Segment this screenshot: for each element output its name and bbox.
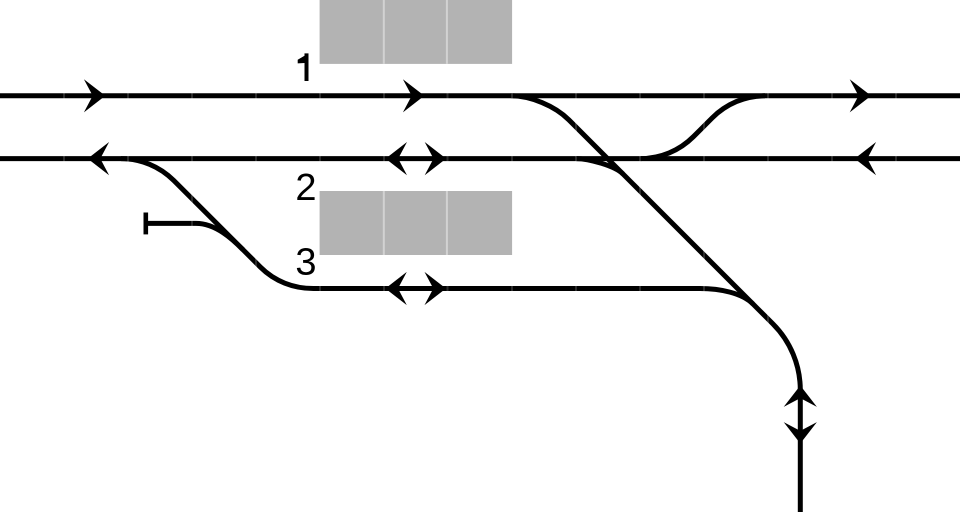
branch from track 1: diagonal to vertical exit line [511, 96, 801, 512]
platform B divider lines [384, 191, 447, 255]
arrow left, track 2 right [855, 142, 876, 175]
track 3 loop (left S-curve from track 2, straight, right end curve into branch) [121, 159, 753, 304]
double arrow, track 3: right head [425, 272, 446, 305]
vertical double arrow: down head [784, 422, 817, 443]
platform A divider lines [384, 0, 447, 64]
track 2 main line [0, 156, 960, 161]
crossover track 2 up to track 1 [641, 96, 766, 159]
siding stub curve [146, 223, 243, 249]
arrow right, track 1 left [84, 79, 105, 112]
platform B (middle, tracks 2/3) [320, 191, 512, 255]
label track 1 (custom Arial-style glyph) [298, 53, 309, 81]
arrow right, track 1 middle [403, 79, 424, 112]
track 1 main line [0, 93, 960, 98]
svg-text:2: 2 [295, 167, 316, 209]
buffer stop [144, 213, 149, 235]
vertical double arrow: up head [784, 386, 817, 407]
arrow right, track 1 right [850, 79, 871, 112]
connector track 2 to branch diagonal [576, 159, 623, 174]
svg-text:3: 3 [295, 242, 316, 284]
double arrow, track 2 middle: left head [386, 142, 407, 175]
platform A (top, track 1) [320, 0, 512, 64]
double arrow, track 2 middle: right head [425, 142, 446, 175]
double arrow, track 3: left head [385, 272, 406, 305]
arrow left, track 2 left [88, 142, 109, 175]
